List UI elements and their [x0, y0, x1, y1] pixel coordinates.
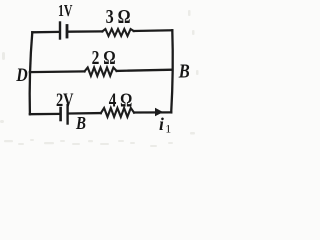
- wire battery to 3-ohm: [69, 30, 102, 33]
- battery 1V: [60, 23, 67, 39]
- resistor R 2ohm zigzag: [85, 68, 117, 76]
- svg-text:2 Ω: 2 Ω: [92, 47, 116, 69]
- wire left vertical: [30, 32, 33, 114]
- svg-text:1: 1: [165, 121, 171, 135]
- svg-text:3 Ω: 3 Ω: [106, 6, 131, 28]
- svg-text:1V: 1V: [58, 1, 73, 20]
- svg-text:B: B: [178, 60, 190, 82]
- wire middle right segment: [117, 70, 172, 71]
- resistor R 4ohm zigzag: [101, 108, 134, 117]
- wire bottom-left segment: [30, 113, 60, 116]
- svg-text:2V: 2V: [56, 90, 74, 111]
- svg-text:D: D: [15, 65, 28, 86]
- battery 2V: [61, 105, 68, 124]
- wire top-left segment: [32, 31, 58, 34]
- wire 4-ohm to bottom-right corner: [134, 111, 171, 113]
- svg-text:i: i: [159, 114, 164, 134]
- wire middle left segment: [30, 70, 85, 73]
- current arrow i1: [155, 108, 163, 117]
- wire right vertical: [171, 30, 173, 112]
- svg-text:4 Ω: 4 Ω: [109, 90, 133, 112]
- svg-text:B: B: [75, 113, 86, 133]
- wire battery to 4-ohm: [70, 112, 101, 115]
- wire 3-ohm to top-right corner: [134, 29, 173, 32]
- resistor R 3ohm zigzag: [102, 29, 134, 36]
